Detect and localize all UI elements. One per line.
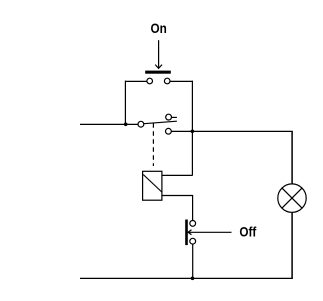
wire bottom rail	[80, 277, 293, 279]
pushbutton S2 actuator arrow	[188, 230, 232, 235]
mechanical link dashed	[152, 123, 154, 166]
relay contact K1 NO terminal	[166, 114, 172, 120]
wire On left	[125, 80, 146, 82]
svg-text:Off: Off	[239, 225, 257, 240]
wire coil upper terminal	[162, 174, 193, 176]
relay contact K1 common	[138, 121, 144, 127]
relay contact K1 NO stub	[172, 116, 177, 118]
node junction bottom	[191, 277, 195, 281]
relay contact K1 arm	[144, 121, 177, 124]
wire Off to bottom rail	[192, 244, 194, 278]
pushbutton S2 top contact	[190, 221, 196, 227]
relay coil K1 diagonal	[143, 175, 162, 193]
relay coil K1 box	[143, 171, 162, 200]
label On	[151, 21, 167, 36]
wire supply left	[80, 123, 138, 125]
wire right vertical upper	[191, 81, 193, 132]
pushbutton S2 actuator bar	[185, 220, 188, 246]
node junction right	[191, 130, 195, 134]
pushbutton S2 bottom contact	[190, 238, 196, 244]
wire left vertical	[124, 81, 126, 125]
pushbutton S1 right contact	[164, 78, 170, 84]
lamp L1	[278, 184, 306, 212]
svg-text:On: On	[151, 21, 167, 36]
pushbutton S1 actuator arrow	[155, 40, 162, 68]
wire lamp riser top	[291, 131, 293, 184]
wire contact to lamp branch	[171, 130, 292, 132]
node junction left	[124, 123, 128, 127]
wire lamp riser bottom	[291, 212, 293, 278]
label Off	[239, 225, 257, 240]
wire On right	[170, 80, 192, 82]
pushbutton S1 actuator bar	[145, 71, 171, 74]
wire right vertical to coil	[191, 131, 193, 175]
pushbutton S1 left contact	[147, 78, 153, 84]
wire coil lower terminal	[162, 196, 193, 221]
relay contact K1 lower terminal	[166, 128, 172, 134]
